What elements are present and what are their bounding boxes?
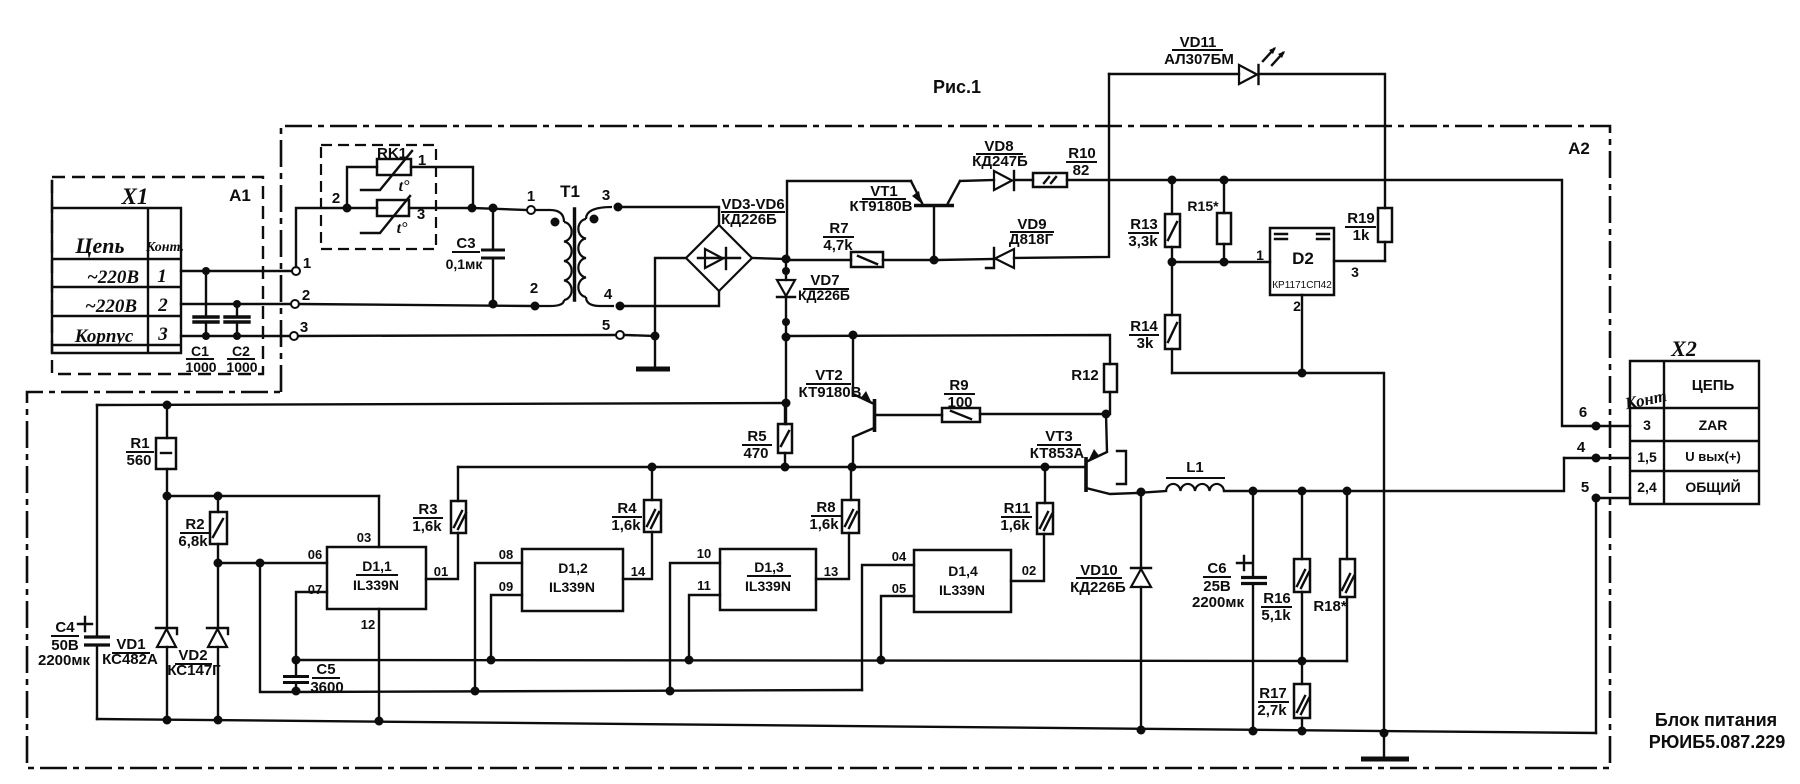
wire R1 bottom to R2 top [167, 495, 379, 497]
wire VT1 base node to VD9 [938, 259, 994, 260]
wire D1.3 pin 10 [670, 563, 720, 691]
svg-text:C5: C5 [316, 661, 335, 678]
svg-text:06: 06 [308, 547, 322, 562]
node C6 top [1249, 487, 1258, 496]
svg-text:R3: R3 [418, 501, 437, 518]
wire D2 pin 3 to R19 [1334, 260, 1385, 262]
svg-text:13: 13 [824, 564, 838, 579]
svg-text:4: 4 [604, 286, 613, 303]
svg-text:ZAR: ZAR [1699, 417, 1728, 433]
svg-text:C3: C3 [456, 235, 475, 252]
svg-text:VT3: VT3 [1045, 428, 1073, 445]
comparator D1.2 [522, 549, 623, 611]
svg-text:1: 1 [157, 266, 167, 287]
wire Корпус from X1 to terminal 3 [181, 335, 290, 337]
svg-text:R5: R5 [747, 428, 766, 445]
wire D2 pin 2 down [1301, 295, 1303, 373]
node R15 bottom [1220, 258, 1229, 267]
label VD10 КД226Б [1070, 562, 1126, 596]
svg-text:R13: R13 [1130, 216, 1158, 233]
node pin 11 on net [685, 656, 694, 665]
diode VD10 [1131, 492, 1151, 730]
node R17 on ground rail [1298, 727, 1307, 736]
svg-text:R16: R16 [1263, 590, 1291, 607]
node ground column on bottom rail [1380, 729, 1389, 738]
wire R7 to VT1 base node [883, 259, 938, 261]
label R14 3k [1129, 318, 1159, 352]
wire VD7 anode stub [785, 259, 787, 280]
wire RK1 upper branch [347, 167, 473, 208]
svg-text:D1,2: D1,2 [558, 560, 588, 576]
label R1 560 [126, 435, 154, 469]
resistor R9 [942, 408, 980, 422]
svg-text:R12: R12 [1071, 367, 1099, 384]
terminal T1 pin 5 screen [616, 331, 624, 339]
svg-text:3: 3 [602, 187, 610, 204]
label R3 1,6k [412, 501, 443, 535]
svg-text:1000: 1000 [226, 359, 257, 375]
svg-text:VD11: VD11 [1180, 34, 1217, 51]
capacitor C2 [225, 300, 249, 340]
svg-text:2,7k: 2,7k [1257, 702, 1287, 719]
svg-text:3: 3 [1351, 264, 1359, 280]
node R11 on output rail [1041, 463, 1050, 472]
capacitor C6 [1237, 491, 1267, 731]
wire T1 pin3 to bridge top [622, 207, 719, 225]
diode VD8 [994, 171, 1014, 190]
svg-text:T1: T1 [560, 182, 580, 201]
svg-text:07: 07 [308, 582, 322, 597]
svg-text:КТ9180В: КТ9180В [799, 384, 862, 401]
wire bottom ground rail [97, 719, 1596, 733]
svg-text:3: 3 [417, 206, 425, 223]
svg-text:КС147Г: КС147Г [167, 662, 221, 679]
svg-text:КД226Б: КД226Б [798, 287, 850, 303]
wire comparator output rail [458, 466, 1085, 468]
wire VT1 collector to VD8 [960, 180, 994, 181]
svg-text:3,3k: 3,3k [1128, 233, 1158, 250]
node R5 on output rail [781, 463, 790, 472]
LED VD11 [1239, 47, 1285, 84]
wire inverting input net [296, 660, 1347, 661]
wire D2 pin 1 [1172, 261, 1270, 263]
svg-text:5: 5 [1581, 479, 1589, 496]
svg-text:R14: R14 [1130, 318, 1158, 335]
svg-text:82: 82 [1073, 162, 1090, 179]
svg-text:R2: R2 [185, 516, 204, 533]
resistor R8 [842, 467, 859, 533]
transistor VT2 [853, 335, 942, 466]
node C6 on ground rail [1249, 727, 1258, 736]
resistor R5 [778, 403, 792, 467]
node C5 bottom [292, 687, 301, 696]
wire D1.1 pin 07 to C5 [296, 592, 327, 660]
thermal resistor block RK1 dashed box [321, 145, 436, 249]
node T1 pin 3 [614, 203, 623, 212]
capacitor C4 [78, 405, 110, 719]
wire VD7 cathode down to lower rail [785, 297, 787, 424]
resistor R13 [1165, 180, 1180, 262]
label R19 1k [1345, 210, 1376, 244]
label R8 1,6k [809, 499, 841, 533]
wire output rail to X2 terminal 4 [1224, 458, 1564, 491]
svg-text:Корпус: Корпус [74, 326, 134, 347]
svg-text:D1,3: D1,3 [754, 559, 784, 575]
svg-text:L1: L1 [1186, 459, 1204, 476]
label VD1 КС482А [102, 636, 158, 668]
svg-text:1,6k: 1,6k [412, 518, 442, 535]
node R15 top [1220, 176, 1229, 185]
resistor R16 [1294, 491, 1310, 661]
wire terminal1 riser to RK1 node 2 [296, 208, 343, 267]
svg-text:D1,1: D1,1 [362, 558, 392, 574]
svg-text:03: 03 [357, 530, 371, 545]
svg-text:C1: C1 [191, 343, 209, 359]
node VD2 on ground rail [214, 716, 223, 725]
svg-text:C6: C6 [1207, 560, 1226, 577]
node pin 08 on reference net [471, 687, 480, 696]
svg-text:X1: X1 [121, 184, 149, 209]
node screen/bridge ground junction [651, 332, 660, 341]
wire reference net [296, 690, 862, 692]
module boundary A2 dash-dot frame [27, 126, 1610, 768]
node T1 pin 4 [616, 302, 625, 311]
svg-text:25В: 25В [1203, 578, 1231, 595]
node C3 top junction [489, 204, 498, 213]
node R2 bottom [214, 559, 223, 568]
svg-text:C2: C2 [232, 343, 250, 359]
svg-text:2: 2 [332, 190, 340, 207]
wire D1.1 pin 12 to bottom rail [378, 609, 380, 721]
svg-text:R1: R1 [130, 435, 149, 452]
terminal 1 of A1 input [292, 267, 300, 275]
svg-text:~220В: ~220В [87, 267, 139, 288]
svg-text:3600: 3600 [310, 679, 343, 696]
svg-text:VD10: VD10 [1080, 562, 1118, 579]
node R13 top [1168, 176, 1177, 185]
node R16/R17 junction [1298, 657, 1307, 666]
resistor R4 [644, 467, 661, 532]
label C4 50В 2200мк [38, 619, 90, 669]
svg-text:IL339N: IL339N [549, 579, 595, 595]
label R17 2,7k [1257, 685, 1289, 719]
node VD7 anode [782, 267, 790, 275]
wire T1 pin4 to bridge bottom [624, 291, 719, 306]
wire D1.2 pin 14 to R4 [623, 532, 652, 579]
svg-text:РЮИБ5.087.229: РЮИБ5.087.229 [1649, 732, 1786, 752]
terminal 2 of A1 input [291, 300, 299, 308]
node VT1 base / VD9 [930, 256, 939, 265]
resistor R12 [1104, 364, 1117, 414]
svg-text:14: 14 [631, 564, 646, 579]
svg-text:U вых(+): U вых(+) [1685, 449, 1741, 464]
svg-text:КТ9180В: КТ9180В [850, 198, 913, 215]
transistor VT3 [1086, 414, 1137, 494]
svg-text:2: 2 [530, 280, 538, 297]
node C5 top [292, 656, 301, 665]
svg-text:4,7k: 4,7k [823, 237, 853, 254]
svg-text:470: 470 [743, 445, 768, 462]
thermistor RK1.2 [361, 196, 410, 237]
svg-text:11: 11 [697, 578, 711, 593]
wire R12 feed rail [786, 335, 1110, 364]
node pin 09 on net [487, 656, 496, 665]
svg-text:R8: R8 [816, 499, 835, 516]
svg-text:2: 2 [302, 287, 310, 304]
resistor R18 [1340, 491, 1355, 661]
node R1 top [163, 401, 172, 410]
svg-text:1: 1 [527, 188, 535, 205]
svg-text:01: 01 [434, 564, 448, 579]
label R10 82 [1066, 145, 1097, 179]
zener VD1 [156, 496, 177, 720]
wire VT1 emitter rail riser [787, 181, 911, 259]
wire reference riser down [260, 563, 296, 692]
wire bridge left corner down [655, 258, 686, 367]
resistor R14 [1165, 262, 1180, 373]
label R2 6,8k [178, 516, 209, 550]
wire VD8 to R10 [1014, 179, 1033, 181]
wire VD9 to LED riser [1014, 74, 1109, 258]
svg-text:1,6k: 1,6k [1000, 517, 1030, 534]
svg-text:3: 3 [157, 324, 168, 345]
capacitor C3 [481, 208, 505, 309]
svg-text:560: 560 [126, 452, 151, 469]
ground symbol bottom right [1361, 757, 1409, 762]
svg-text:КД226Б: КД226Б [721, 211, 777, 228]
svg-text:4: 4 [1577, 439, 1586, 456]
node R1 bottom [163, 492, 172, 501]
wire VD11 cathode to R19 [1259, 74, 1385, 208]
svg-text:t°: t° [399, 178, 410, 195]
svg-text:~220В: ~220В [85, 296, 137, 317]
node RK1 pin 2 [343, 204, 352, 213]
label R13 3,3k [1128, 216, 1159, 250]
connector X1 table [52, 181, 181, 353]
svg-text:IL339N: IL339N [745, 578, 791, 594]
resistor R7 [851, 252, 883, 267]
svg-text:2200мк: 2200мк [38, 652, 90, 669]
svg-text:1k: 1k [1353, 227, 1370, 244]
wire RK1 output to T1 pin1 [472, 208, 527, 210]
wire upper rail of comparator section [97, 403, 786, 405]
svg-text:Цепь: Цепь [74, 233, 124, 258]
svg-text:2: 2 [157, 295, 168, 316]
wire D1.1 pin 03 [378, 496, 380, 547]
svg-text:Блок питания: Блок питания [1655, 710, 1777, 730]
node VT2 collector / R8 on output rail [848, 463, 857, 472]
label C6 25В 2200мк [1192, 560, 1244, 611]
svg-text:09: 09 [499, 579, 513, 594]
terminal 6 [1579, 404, 1630, 431]
node VD7 cathode [782, 318, 790, 326]
svg-text:5: 5 [602, 317, 610, 334]
svg-text:X2: X2 [1670, 336, 1697, 361]
svg-text:Рис.1: Рис.1 [933, 77, 981, 97]
svg-text:5,1k: 5,1k [1261, 607, 1291, 624]
node bridge output / R7 junction [782, 255, 791, 264]
terminal 5 [1581, 479, 1630, 503]
node R12 feed junction [782, 333, 791, 342]
svg-text:3k: 3k [1137, 335, 1154, 352]
label C1 1000 [185, 343, 216, 375]
zener VD2 [207, 563, 228, 720]
label VD11 АЛ307БМ [1164, 34, 1234, 68]
svg-text:IL339N: IL339N [939, 582, 985, 598]
svg-text:R17: R17 [1259, 685, 1287, 702]
wire T1 pin5 to ground [624, 335, 655, 336]
label R11 1,6k [1000, 500, 1032, 534]
svg-text:ОБЩИЙ: ОБЩИЙ [1685, 478, 1740, 495]
svg-text:R18*: R18* [1313, 598, 1347, 615]
node R2 top [214, 492, 223, 501]
svg-text:1,6k: 1,6k [809, 516, 839, 533]
label VT2 КТ9180В [799, 367, 862, 401]
svg-text:A2: A2 [1568, 139, 1590, 158]
svg-text:1000: 1000 [185, 359, 216, 375]
svg-text:t°: t° [397, 220, 408, 237]
IC D2 КР1171СП42 [1270, 228, 1334, 295]
wire R10 to X2 terminal 6 [1067, 180, 1591, 426]
svg-text:6,8k: 6,8k [178, 533, 208, 550]
svg-text:A1: A1 [229, 186, 251, 205]
node pin 05 on net [877, 656, 886, 665]
resistor R2 [210, 496, 227, 563]
node RK1 output [468, 204, 477, 213]
wire D1.4 pin 04 [862, 565, 914, 690]
comparator D1.3 [720, 549, 816, 610]
svg-text:АЛ307БМ: АЛ307БМ [1164, 51, 1234, 68]
wire R2 bottom to D1.1 pin 06 [218, 562, 327, 564]
svg-text:КТ853А: КТ853А [1030, 445, 1085, 462]
svg-text:Д818Г: Д818Г [1009, 231, 1054, 248]
wire ~220V-2 from X1 to terminal 2 [181, 303, 291, 305]
wire D1.3 pin 11 [689, 595, 720, 660]
svg-text:05: 05 [892, 581, 906, 596]
svg-text:04: 04 [892, 549, 907, 564]
svg-text:Конт.: Конт. [145, 240, 184, 255]
node VD10 on ground rail [1137, 726, 1146, 735]
wire X1-2 to T1 pin2 [299, 304, 531, 306]
resistor R3 [451, 467, 466, 533]
wire terminal 5 to bottom rail [1595, 498, 1597, 733]
svg-text:КД226Б: КД226Б [1070, 579, 1126, 596]
capacitor C1 [194, 267, 218, 340]
label VD8 КД247Б [972, 138, 1028, 170]
svg-text:КР1171СП42: КР1171СП42 [1272, 280, 1332, 291]
wire VD11 anode [1109, 73, 1239, 75]
label R5 470 [742, 428, 772, 462]
module A1 dashed box [52, 177, 263, 374]
node VT2 emitter junction [849, 331, 858, 340]
svg-text:D2: D2 [1292, 249, 1314, 268]
label C5 3600 [310, 661, 343, 696]
node R16 top [1298, 487, 1307, 496]
svg-text:R7: R7 [829, 220, 848, 237]
wire X1-3 to T1 pin5 [298, 335, 616, 336]
transformer T1 [527, 206, 614, 311]
resistor R17 [1294, 661, 1310, 731]
svg-text:12: 12 [361, 617, 375, 632]
resistor R15 [1217, 180, 1231, 262]
label R7 4,7k [823, 220, 854, 254]
label VD2 КС147Г [167, 647, 221, 679]
svg-text:1,6k: 1,6k [611, 517, 641, 534]
capacitor C5 [283, 660, 309, 691]
transistor VT1 [911, 181, 960, 260]
zener VD9 [986, 248, 1014, 268]
svg-text:R9: R9 [949, 377, 968, 394]
wire D1.4 pin 05 [881, 596, 914, 660]
terminal 4 [1564, 439, 1630, 463]
label VD3-VD6 КД226Б [721, 196, 785, 228]
label L1 [1166, 459, 1225, 478]
wire D1.3 pin 13 to R8 [816, 533, 849, 579]
wire bridge output to VD7 node [752, 258, 786, 259]
resistor R1 [156, 405, 176, 496]
svg-text:КД247Б: КД247Б [972, 153, 1028, 170]
label VT3 КТ853А [1030, 428, 1085, 462]
svg-text:ЦЕПЬ: ЦЕПЬ [1692, 377, 1735, 394]
svg-text:3: 3 [1643, 417, 1651, 433]
resistor R19 [1378, 208, 1392, 261]
svg-text:R11: R11 [1004, 500, 1031, 517]
node R9/R12/VT3 emitter [1102, 410, 1111, 419]
svg-text:1: 1 [1256, 247, 1264, 263]
ground symbol near T1 [636, 367, 670, 372]
label R16 5,1k [1261, 590, 1292, 624]
node D2 pin 2 ground net [1298, 369, 1307, 378]
wire D1.2 pin 09 [491, 595, 522, 660]
node R18 top [1343, 487, 1352, 496]
wire D1.4 pin 02 to R11 [1011, 534, 1044, 581]
svg-text:08: 08 [499, 547, 513, 562]
connector X2 table [1630, 361, 1759, 504]
resistor R11 [1037, 467, 1053, 534]
node pin 10 on reference net [666, 687, 675, 696]
node VD1 on ground rail [163, 716, 172, 725]
label C3 0,1мк [446, 235, 484, 272]
node R13 bottom / D2 pin1 net [1168, 258, 1177, 267]
label VT1 КТ9180В [850, 183, 913, 215]
wire RK1 lower branch [347, 207, 472, 209]
label VD7 КД226Б [798, 272, 850, 303]
svg-text:10: 10 [697, 546, 711, 561]
bridge rectifier VD3-VD6 [686, 225, 752, 291]
svg-text:C4: C4 [55, 619, 75, 636]
terminal 3 of A1 input [290, 332, 298, 340]
svg-text:КС482А: КС482А [102, 651, 158, 668]
svg-text:100: 100 [947, 394, 972, 411]
svg-text:2200мк: 2200мк [1192, 594, 1244, 611]
svg-text:3: 3 [300, 319, 308, 336]
thermistor RK1.1 [361, 151, 412, 195]
node lower rail end [782, 399, 791, 408]
node pin 12 on bottom rail [375, 717, 384, 726]
label R4 1,6k [611, 500, 642, 534]
wire R7 node to resistor [786, 259, 851, 261]
label R9 100 [944, 377, 975, 411]
svg-text:0,1мк: 0,1мк [446, 256, 484, 272]
svg-text:1: 1 [418, 152, 426, 169]
svg-text:R4: R4 [617, 500, 637, 517]
svg-text:6: 6 [1579, 404, 1587, 421]
svg-text:1,5: 1,5 [1637, 449, 1657, 465]
svg-text:IL339N: IL339N [353, 577, 399, 593]
svg-text:R19: R19 [1347, 210, 1375, 227]
svg-text:1: 1 [303, 255, 311, 272]
diode VD7 [777, 280, 795, 297]
